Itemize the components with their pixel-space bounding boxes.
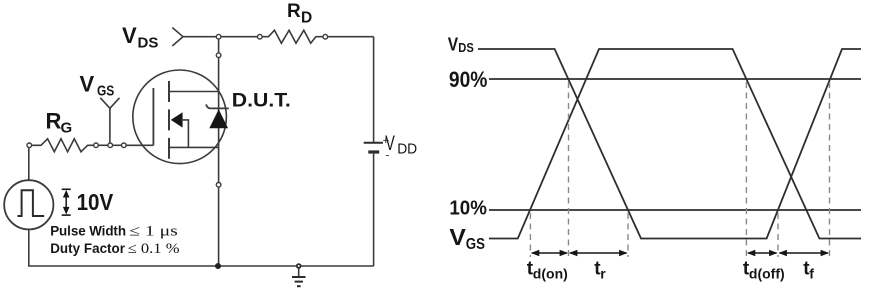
mosfet gate bar bbox=[152, 88, 154, 145]
label RG bbox=[46, 108, 73, 136]
svg-text:f: f bbox=[809, 266, 814, 282]
svg-text:V: V bbox=[122, 23, 137, 48]
label tr bbox=[594, 259, 606, 282]
svg-text:DD: DD bbox=[397, 140, 417, 157]
mosfet substrate arrow bbox=[171, 112, 189, 147]
10 percent line bbox=[489, 209, 861, 211]
wire top rail left bbox=[183, 36, 258, 38]
wire gate lead bbox=[126, 144, 153, 146]
svg-text:DS: DS bbox=[458, 40, 474, 55]
dashed marker VDS rise 90pct bbox=[829, 82, 831, 257]
wire drain vertical bbox=[218, 58, 220, 267]
90 percent line bbox=[489, 78, 861, 80]
arrow tr bbox=[569, 250, 628, 256]
label RD bbox=[287, 1, 312, 27]
svg-text:R: R bbox=[287, 1, 301, 22]
svg-text:R: R bbox=[46, 108, 62, 133]
arrow tf bbox=[778, 250, 829, 256]
mosfet channel segments bbox=[168, 81, 170, 159]
label VDD bbox=[383, 132, 418, 161]
label VGS bbox=[80, 72, 115, 100]
node source terminal bbox=[216, 183, 221, 188]
body diode D1 bbox=[206, 104, 229, 128]
dashed marker VDS fall 90pct bbox=[568, 82, 570, 257]
svg-text:d(on): d(on) bbox=[533, 266, 568, 282]
ground bbox=[292, 264, 306, 286]
svg-text:10V: 10V bbox=[77, 189, 114, 215]
svg-text:90%: 90% bbox=[449, 67, 488, 92]
svg-text:G: G bbox=[61, 119, 73, 136]
label VDS waveform bbox=[448, 34, 474, 55]
VDS waveform bbox=[478, 49, 861, 239]
pulse generator bbox=[4, 180, 53, 229]
svg-text:V: V bbox=[80, 72, 95, 97]
label VGS waveform bbox=[449, 224, 485, 253]
svg-text:Pulse Width≤ 1 μs: Pulse Width≤ 1 μs bbox=[50, 223, 178, 239]
mosfet circle U1 bbox=[133, 70, 227, 164]
wire top rail right bbox=[328, 36, 374, 38]
resistor RG bbox=[32, 139, 94, 152]
resistor RD bbox=[258, 30, 328, 43]
dashed marker VDS fall 10pct bbox=[627, 213, 629, 257]
svg-text:V: V bbox=[449, 224, 466, 250]
battery VDD bbox=[364, 143, 383, 152]
arrow td(off) bbox=[747, 250, 778, 256]
wire right rail lower bbox=[373, 154, 375, 266]
svg-text:D.U.T.: D.U.T. bbox=[232, 90, 291, 112]
VGS waveform bbox=[489, 49, 861, 239]
label VDS bbox=[122, 23, 158, 52]
dashed marker VGS rise 10pct bbox=[529, 213, 531, 257]
wire probe node to gate node bbox=[113, 144, 122, 146]
svg-text:GS: GS bbox=[97, 82, 114, 99]
probe VGS bbox=[100, 98, 119, 143]
wire drain stub bbox=[218, 39, 220, 53]
svg-text:r: r bbox=[600, 266, 606, 282]
dashed marker VGS fall 90pct bbox=[745, 82, 747, 257]
node drain terminal bbox=[216, 53, 221, 58]
wire bottom rail bbox=[28, 265, 374, 267]
svg-text:D: D bbox=[301, 10, 312, 27]
svg-text:DS: DS bbox=[138, 35, 159, 52]
dashed marker VDS rise 10pct bbox=[777, 213, 779, 257]
arrow td(on) bbox=[531, 250, 568, 256]
label tf bbox=[803, 259, 814, 282]
mosfet source lead bbox=[169, 146, 219, 148]
node VGS probe bbox=[108, 143, 113, 148]
wire pulse gen to RG bbox=[28, 148, 30, 181]
wire pulse gen to bottom rail bbox=[28, 229, 30, 266]
node gate bbox=[122, 143, 127, 148]
wire right rail upper bbox=[373, 37, 375, 143]
mosfet drain lead bbox=[169, 91, 219, 93]
node RG right bbox=[94, 143, 99, 148]
svg-text:Duty Factor≤ 0.1 %: Duty Factor≤ 0.1 % bbox=[50, 241, 179, 257]
label td(off) bbox=[743, 259, 785, 282]
node top rail drain tee bbox=[216, 34, 221, 39]
svg-text:-: - bbox=[386, 149, 390, 161]
node RG left bbox=[27, 143, 32, 148]
svg-text:V: V bbox=[448, 34, 459, 55]
probe chevron VDS bbox=[172, 28, 183, 46]
wire RG node to probe node bbox=[98, 144, 108, 146]
svg-text:d(off): d(off) bbox=[749, 266, 785, 282]
svg-text:10%: 10% bbox=[449, 197, 487, 220]
svg-text:GS: GS bbox=[466, 236, 485, 253]
label td(on) bbox=[527, 259, 568, 282]
junction source-bottom rail bbox=[215, 263, 221, 269]
amplitude arrow 10V bbox=[62, 189, 71, 215]
